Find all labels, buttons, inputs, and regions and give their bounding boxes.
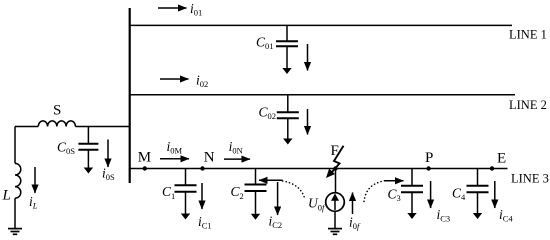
label iC3	[437, 207, 451, 224]
svg-text:LINE 3: LINE 3	[511, 171, 549, 185]
label C0S	[57, 140, 75, 157]
arrow i0S	[107, 140, 109, 168]
wire LINE 2	[130, 94, 515, 96]
svg-text:N: N	[204, 149, 215, 165]
arrow iC2	[277, 182, 279, 215]
source U0f	[326, 193, 345, 212]
arrow i0N	[224, 158, 250, 160]
label E	[497, 151, 506, 167]
arrow i02	[160, 78, 189, 80]
fault lightning bolt	[326, 146, 344, 178]
svg-text:P: P	[425, 150, 433, 166]
node E	[490, 166, 494, 170]
label L	[2, 188, 11, 204]
ground (below L)	[8, 229, 22, 235]
label C3	[388, 186, 401, 203]
svg-text:LINE 1: LINE 1	[509, 27, 547, 41]
wire (source to ground)	[334, 211, 336, 228]
capacitor C4	[467, 169, 489, 220]
bus bar	[129, 8, 131, 183]
arrow (C02 charging current)	[307, 109, 309, 135]
capacitor C2	[245, 169, 267, 220]
capacitor C1	[175, 169, 197, 220]
arrow iC4	[494, 181, 496, 208]
svg-text:S: S	[53, 103, 61, 119]
wire LINE 1	[130, 24, 512, 26]
capacitor C3	[401, 169, 423, 220]
label i0f	[349, 215, 361, 232]
svg-text:M: M	[138, 149, 151, 165]
label i0N	[229, 139, 243, 156]
arrow toward C3 (fault current path)	[385, 180, 404, 182]
label LINE 1	[509, 27, 547, 41]
label iC2	[269, 214, 283, 231]
arrow into C2 (fault current path)	[259, 179, 283, 181]
wire from source to bus	[15, 126, 130, 128]
capacitor C02	[277, 95, 299, 145]
label F	[331, 143, 339, 159]
label i01	[190, 1, 202, 18]
label iC1	[198, 214, 212, 231]
wire (left drop)	[14, 127, 16, 164]
label S	[53, 103, 61, 119]
svg-text:LINE 2: LINE 2	[509, 98, 547, 112]
arrow iC3	[430, 181, 432, 208]
label M	[138, 149, 151, 165]
label i0M	[167, 139, 183, 156]
node F (fault point)	[333, 166, 337, 170]
label C2	[231, 184, 244, 201]
label C1	[162, 184, 175, 201]
label i0S	[102, 166, 115, 183]
inductor S (arc suppression coil)	[38, 121, 75, 127]
arrow iL	[34, 167, 36, 193]
dashed arc (fault current to C3)	[364, 181, 385, 202]
dashed arc (fault current to C2)	[283, 181, 306, 200]
arrow i01	[158, 7, 187, 9]
label i02	[196, 73, 208, 90]
label C01	[256, 34, 274, 51]
arrow (C01 charging current)	[307, 44, 309, 71]
label U0f	[308, 196, 326, 213]
wire LINE 3	[130, 168, 508, 170]
node N	[200, 166, 204, 170]
label P	[425, 150, 433, 166]
svg-text:E: E	[497, 151, 506, 167]
label N	[204, 149, 215, 165]
label LINE 2	[509, 98, 547, 112]
svg-text:L: L	[2, 188, 11, 204]
wire	[14, 198, 16, 228]
node M	[143, 166, 147, 170]
label iC4	[499, 207, 513, 224]
arrow i0M	[160, 158, 189, 160]
label C4	[452, 185, 466, 202]
capacitor C0S	[78, 127, 98, 174]
capacitor C01	[276, 25, 298, 74]
arrow i0f	[352, 193, 354, 215]
node P	[426, 166, 430, 170]
label C02	[259, 105, 277, 122]
label LINE 3	[511, 171, 549, 185]
arrow iC1	[201, 183, 203, 209]
ground (below U0f)	[328, 229, 342, 235]
inductor L	[15, 163, 21, 198]
wire (fault to source)	[335, 169, 337, 193]
label iL	[29, 194, 38, 211]
